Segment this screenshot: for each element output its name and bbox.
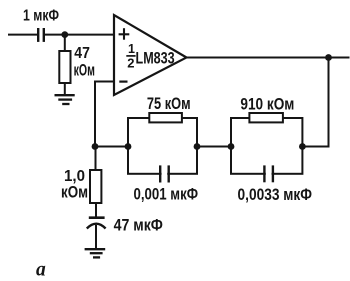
node loop2 right [299,143,306,150]
node loop1 left [125,143,132,150]
svg-text:910 кОм: 910 кОм [240,94,294,113]
svg-text:кОм: кОм [61,183,88,202]
svg-text:LM833: LM833 [136,48,175,67]
svg-text:2: 2 [127,55,134,70]
svg-text:47: 47 [74,45,90,62]
node feedback left junction [92,143,99,150]
capacitor C3 (0,0033 мкФ) [264,165,273,182]
wire R3 to C4 [95,203,97,217]
wire junction to loop1 [95,146,128,148]
capacitor C1 (input, 1 мкФ) [38,28,44,42]
node loop2 left [228,143,235,150]
wire loop1 to loop2 [197,146,231,148]
loop1 frame wires [128,118,197,174]
op-amp plus input marking [119,28,130,40]
capacitor C2 (0,001 мкФ) [160,165,169,182]
label op-amp fraction 1/2 [127,42,135,70]
svg-text:1: 1 [128,42,135,56]
capacitor C3 gap [266,170,272,178]
wire junction down to R3 [95,147,97,171]
ground GND1 [55,95,75,104]
svg-text:0,001 мкФ: 0,001 мкФ [134,185,199,204]
svg-text:кОм: кОм [74,61,95,80]
wire inverting input [95,82,114,147]
op-amp minus input marking [119,80,127,82]
ground GND2 [85,249,106,257]
resistor R1 (47 кОм) [59,51,70,83]
resistor R3 (1,0 кОм) [90,170,101,203]
node input junction [61,31,68,38]
resistor R2 (75 кОм) [149,113,182,122]
wire output [187,57,350,59]
wire C4 to ground [95,225,97,248]
svg-text:1 мкФ: 1 мкФ [23,8,59,25]
svg-text:а: а [36,260,46,281]
capacitor C4 (47 мкФ polarized) [89,216,105,219]
svg-text:0,0033 мкФ: 0,0033 мкФ [238,185,313,204]
op-amp U1 triangle [114,15,187,95]
wire C1 to op-amp noninverting input [45,34,114,36]
svg-text:47 мкФ: 47 мкФ [114,215,163,234]
loop2 frame wires [231,118,302,174]
wire R1 to ground [64,83,66,95]
wire input left segment [8,34,37,36]
capacitor C2 gap [162,170,168,178]
node loop1 right [194,143,201,150]
node output junction [325,54,332,61]
svg-text:75 кОм: 75 кОм [147,94,191,113]
wire node to R1 [64,35,66,52]
resistor R4 (910 кОм) [249,113,283,122]
wire feedback from output to loop2 [302,58,328,147]
